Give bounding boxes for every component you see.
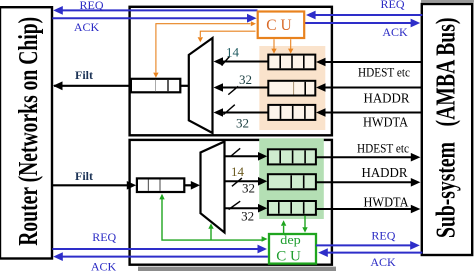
svg-text:HADDR: HADDR [364,91,410,106]
svg-text:REQ: REQ [371,229,395,243]
svg-text:32: 32 [242,181,255,196]
svg-text:REQ: REQ [92,230,116,244]
svg-text:Router (Networks on Chip): Router (Networks on Chip) [13,17,43,246]
svg-text:14: 14 [231,164,245,179]
svg-text:32: 32 [239,72,252,87]
svg-text:C U: C U [266,17,291,34]
svg-text:Sub-system: Sub-system [431,142,461,238]
svg-text:C U: C U [276,249,301,265]
svg-text:HDEST etc: HDEST etc [357,142,409,156]
svg-text:ACK: ACK [370,255,396,269]
svg-text:ACK: ACK [382,25,408,39]
svg-text:14: 14 [226,45,240,60]
svg-text:ACK: ACK [91,260,117,271]
svg-text:HWDTA: HWDTA [364,194,409,209]
svg-text:(AMBA Bus): (AMBA Bus) [431,17,461,126]
svg-text:REQ: REQ [381,0,405,11]
svg-text:HWDTA: HWDTA [363,115,408,130]
svg-text:32: 32 [241,209,254,224]
svg-text:Filt: Filt [75,169,93,183]
svg-text:REQ: REQ [80,0,104,12]
svg-text:Filt: Filt [75,68,93,82]
svg-text:ACK: ACK [74,20,100,34]
svg-text:dep: dep [280,232,301,247]
svg-text:32: 32 [236,116,249,131]
svg-text:HADDR: HADDR [362,165,408,180]
svg-text:HDEST etc: HDEST etc [358,66,410,80]
